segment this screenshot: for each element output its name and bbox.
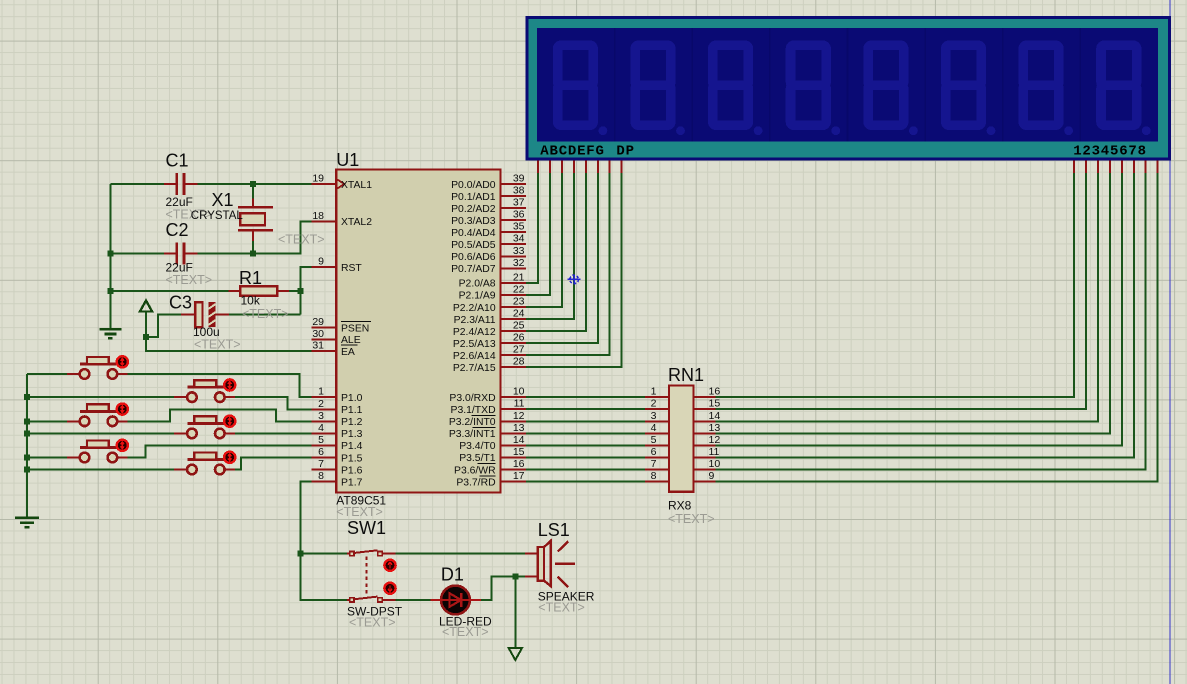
- wire rail to button R2: [27, 432, 174, 434]
- wire U1 P1.7 to SW1 top pole: [301, 482, 347, 554]
- svg-text:X1: X1: [212, 190, 234, 210]
- resistor network RN1 body: [669, 386, 693, 492]
- display digit pins: [1074, 161, 1158, 174]
- svg-text:25: 25: [513, 320, 525, 332]
- junction node rail/C2: [107, 251, 113, 257]
- svg-text:P3.4/T0: P3.4/T0: [459, 441, 496, 452]
- svg-text:P1.3: P1.3: [341, 429, 363, 440]
- U1 pin 32 (P0.7/AD7): [451, 257, 526, 275]
- svg-text:5: 5: [318, 434, 324, 446]
- wire button R1 to U1 P1.1: [233, 397, 312, 409]
- svg-text:29: 29: [312, 316, 324, 328]
- RN1 pin 8: [645, 470, 669, 482]
- U1 pin 23 (P2.2/A10): [453, 296, 526, 314]
- svg-text:2: 2: [651, 398, 657, 410]
- U1 pin 22 (P2.1/A9): [459, 283, 526, 301]
- power arrow terminal: [140, 301, 152, 312]
- svg-text:P3.2/INT0: P3.2/INT0: [449, 417, 496, 428]
- svg-text:11: 11: [514, 398, 525, 410]
- svg-text:17: 17: [513, 470, 525, 482]
- svg-text:12: 12: [709, 434, 721, 446]
- U1 pin 27 (P2.6/A14): [453, 344, 526, 362]
- wire U1 P3.3 to RN1 pin 4: [526, 432, 645, 434]
- display digit 1 ghost segments: [558, 45, 608, 135]
- svg-text:LS1: LS1: [538, 520, 570, 540]
- svg-text:P1.5: P1.5: [341, 453, 363, 464]
- svg-text:38: 38: [513, 185, 525, 197]
- svg-text:P3.7/RD: P3.7/RD: [456, 477, 495, 488]
- svg-text:P3.1/TXD: P3.1/TXD: [451, 405, 496, 416]
- svg-text:P2.3/A11: P2.3/A11: [454, 315, 496, 326]
- svg-text:C2: C2: [166, 220, 189, 240]
- svg-text:12: 12: [513, 410, 525, 422]
- wire XTAL1 node to crystal: [252, 184, 254, 199]
- speaker LS1: [525, 541, 575, 587]
- svg-text:15: 15: [513, 446, 525, 458]
- svg-text:P2.4/A12: P2.4/A12: [453, 327, 496, 338]
- display digit 5 ghost segments: [868, 45, 918, 135]
- LED D1: [431, 586, 481, 615]
- SW1 actuator marker down: [384, 583, 395, 594]
- capacitor C1: [164, 151, 197, 210]
- svg-text:ABCDEFG: ABCDEFG: [540, 143, 604, 159]
- U1 pin 34 (P0.5/AD5): [451, 233, 526, 251]
- wire display segment F to U1 P2.5: [526, 173, 598, 344]
- U1 pin 18 (XTAL2): [312, 210, 373, 228]
- wire SW1 node to lower pole: [301, 554, 347, 600]
- wire power node to U1 EA: [146, 337, 312, 351]
- wire display segment E to U1 P2.4: [526, 173, 586, 332]
- svg-text:<TEXT>: <TEXT>: [194, 338, 241, 352]
- svg-text:P0.1/AD1: P0.1/AD1: [451, 192, 496, 203]
- svg-text:P0.2/AD2: P0.2/AD2: [451, 204, 496, 215]
- svg-text:P3.5/T1: P3.5/T1: [459, 453, 496, 464]
- junction node rail/R1: [107, 288, 113, 294]
- U1 pin 1 (P1.0): [312, 386, 363, 404]
- svg-text:27: 27: [513, 344, 525, 356]
- wire rail to button R3: [27, 469, 174, 471]
- switch SW1 (SW-DPST): [347, 550, 395, 602]
- junction node rail/R3btn: [24, 467, 30, 473]
- wire RST node vertical to U1 RST: [301, 267, 312, 314]
- svg-text:C1: C1: [166, 151, 189, 171]
- button BTN-R2 actuator marker: [224, 416, 235, 427]
- svg-text:P1.0: P1.0: [341, 393, 363, 404]
- svg-text:10: 10: [709, 458, 721, 470]
- svg-text:39: 39: [513, 173, 525, 185]
- push button BTN-R1: [174, 380, 235, 402]
- svg-text:13: 13: [709, 422, 721, 434]
- display digit 8 ghost segments: [1101, 45, 1151, 135]
- svg-text:31: 31: [312, 340, 324, 352]
- wire LED cathode to speaker node: [481, 577, 515, 600]
- svg-text:14: 14: [513, 434, 525, 446]
- svg-text:P1.7: P1.7: [341, 477, 363, 488]
- RN1 pin 16: [693, 386, 720, 398]
- wire U1 P3.1 to RN1 pin 2: [526, 408, 645, 410]
- display digit 7 ghost segments: [1023, 45, 1073, 135]
- RN1 pin 6: [645, 446, 669, 458]
- svg-text:P1.4: P1.4: [341, 441, 363, 452]
- svg-text:DP: DP: [616, 143, 634, 159]
- svg-text:36: 36: [513, 209, 525, 221]
- svg-text:26: 26: [513, 332, 525, 344]
- U1 pin 6 (P1.5): [312, 446, 363, 464]
- svg-text:18: 18: [312, 210, 324, 222]
- wire display digit 6 to RN1 pin 11: [716, 173, 1134, 458]
- wire rail to button L1: [27, 373, 67, 375]
- U1 pin 33 (P0.6/AD6): [451, 245, 526, 263]
- display segment pins: [538, 161, 622, 174]
- wire rail to button L3: [27, 457, 67, 459]
- wire display digit 4 to RN1 pin 13: [716, 173, 1110, 434]
- display digit 3 ghost segments: [713, 45, 763, 135]
- U1 pin 8 (P1.7): [312, 470, 363, 488]
- svg-text:1: 1: [651, 386, 657, 398]
- U1 pin 28 (P2.7/A15): [453, 356, 526, 374]
- wire speaker node to LS1: [515, 576, 525, 578]
- U1 pin 26 (P2.5/A13): [453, 332, 526, 350]
- push button BTN-R3: [174, 453, 235, 475]
- svg-text:D1: D1: [441, 565, 464, 585]
- svg-text:<TEXT>: <TEXT>: [538, 601, 585, 615]
- RN1 pin 13: [693, 422, 720, 434]
- svg-text:<TEXT>: <TEXT>: [349, 616, 396, 630]
- svg-text:SW1: SW1: [347, 518, 386, 538]
- wire R1 right to RST node: [289, 290, 301, 292]
- svg-text:14: 14: [709, 410, 721, 422]
- wire display digit 5 to RN1 pin 12: [716, 173, 1122, 446]
- RN1 pin 11: [693, 446, 719, 458]
- wire display segment G to U1 P2.6: [526, 173, 610, 356]
- U1 pin 5 (P1.4): [312, 434, 363, 452]
- junction node XTAL2/crystal: [250, 251, 256, 257]
- wire rail to button R1: [27, 396, 174, 398]
- svg-text:24: 24: [513, 308, 525, 320]
- svg-text:23: 23: [513, 296, 525, 308]
- svg-text:P3.0/RXD: P3.0/RXD: [449, 393, 495, 404]
- wire C1 left to ground rail: [110, 183, 164, 185]
- wire crystal bottom drop: [252, 241, 254, 254]
- wire C1 right to U1 XTAL1: [197, 183, 311, 185]
- wire button ground rail: [26, 374, 28, 517]
- push button BTN-L2: [67, 404, 128, 426]
- svg-text:P0.5/AD5: P0.5/AD5: [451, 240, 496, 251]
- junction node rail/R2btn: [24, 430, 30, 436]
- svg-text:9: 9: [709, 470, 715, 482]
- svg-text:6: 6: [318, 446, 324, 458]
- display digit 6 ghost segments: [946, 45, 996, 135]
- wire U1 P3.2 to RN1 pin 3: [526, 420, 645, 422]
- sheet border (right edge): [1169, 0, 1171, 684]
- svg-text:11: 11: [709, 446, 720, 458]
- button BTN-L3 actuator marker: [117, 440, 128, 451]
- push button BTN-L3: [67, 441, 128, 463]
- U1 pin 15 (P3.5/T1): [459, 446, 526, 464]
- resistor R1: [229, 268, 289, 308]
- svg-text:P0.6/AD6: P0.6/AD6: [451, 252, 496, 263]
- svg-text:9: 9: [318, 256, 324, 268]
- svg-text:33: 33: [513, 245, 525, 257]
- wire rail to button L2: [27, 420, 67, 422]
- button BTN-R1 actuator marker: [224, 379, 235, 390]
- svg-text:<TEXT>: <TEXT>: [278, 233, 325, 247]
- U1 pin 13 (P3.3/INT1): [449, 422, 526, 440]
- wire U1 P3.4 to RN1 pin 5: [526, 444, 645, 446]
- svg-text:P0.4/AD4: P0.4/AD4: [451, 228, 496, 239]
- svg-text:21: 21: [513, 271, 525, 283]
- wire display segment C to U1 P2.2: [526, 173, 562, 308]
- U1 pin 24 (P2.3/A11): [454, 308, 526, 326]
- svg-text:<TEXT>: <TEXT>: [442, 625, 489, 639]
- svg-text:28: 28: [513, 356, 525, 368]
- RN1 pin 14: [693, 410, 720, 422]
- svg-text:32: 32: [513, 257, 525, 269]
- svg-text:P2.7/A15: P2.7/A15: [453, 363, 496, 374]
- wire U1 P3.5 to RN1 pin 6: [526, 456, 645, 458]
- svg-text:EA: EA: [341, 347, 355, 358]
- wire left ground rail: [109, 184, 111, 329]
- svg-text:4: 4: [651, 422, 657, 434]
- svg-text:P2.1/A9: P2.1/A9: [459, 291, 496, 302]
- RN1 pin 1: [645, 386, 669, 398]
- svg-text:10: 10: [513, 386, 525, 398]
- RN1 pin 10: [693, 458, 720, 470]
- U1 pin 31 (EA): [312, 340, 358, 358]
- wire U1 P3.7 to RN1 pin 8: [526, 481, 645, 483]
- RN1 pin 3: [645, 410, 669, 422]
- svg-text:XTAL2: XTAL2: [341, 217, 372, 228]
- junction node rail/L3: [24, 455, 30, 461]
- RN1 pin 2: [645, 398, 669, 410]
- wire speaker node to ground: [514, 577, 516, 649]
- U1 XTAL1 clock marker: [337, 180, 344, 189]
- svg-text:15: 15: [709, 398, 721, 410]
- svg-text:RX8: RX8: [668, 499, 692, 513]
- svg-text:30: 30: [312, 328, 324, 340]
- wire button L1 to U1 P1.0: [128, 374, 312, 397]
- U1 pin 21 (P2.0/A8): [459, 271, 526, 289]
- wire C3 left to power node: [146, 314, 181, 336]
- svg-text:RST: RST: [341, 263, 362, 274]
- U1 pin 35 (P0.4/AD4): [451, 221, 526, 239]
- U1 pin 12 (P3.2/INT0): [449, 410, 526, 428]
- wire button L3 to U1 P1.4: [128, 445, 312, 457]
- U1 pin 10 (P3.0/RXD): [449, 386, 526, 404]
- svg-text:19: 19: [312, 173, 324, 185]
- svg-text:22: 22: [513, 283, 525, 295]
- svg-text:C3: C3: [169, 293, 192, 313]
- wire display digit 2 to RN1 pin 15: [716, 173, 1087, 410]
- U1 pin 14 (P3.4/T0): [459, 434, 526, 452]
- button BTN-R3 actuator marker: [224, 452, 235, 463]
- display digit 2 ghost segments: [635, 45, 685, 135]
- svg-text:P0.7/AD7: P0.7/AD7: [451, 264, 496, 275]
- svg-text:3: 3: [651, 410, 657, 422]
- svg-text:P2.0/A8: P2.0/A8: [459, 279, 496, 290]
- svg-text:P1.2: P1.2: [341, 417, 363, 428]
- junction node rail/R1btn: [24, 394, 30, 400]
- RN1 pin 12: [693, 434, 720, 446]
- svg-text:R1: R1: [239, 268, 262, 288]
- U1 pin 30 (ALE): [312, 328, 361, 346]
- U1 pin 2 (P1.1): [312, 398, 363, 416]
- wire display digit 1 to RN1 pin 16: [716, 173, 1075, 398]
- wire button R3 to U1 P1.5: [233, 458, 312, 470]
- svg-text:P2.6/A14: P2.6/A14: [453, 351, 496, 362]
- U1 pin 9 (RST): [312, 256, 363, 274]
- wire U1 P3.0 to RN1 pin 1: [526, 396, 645, 398]
- wire SW1 top to speaker top: [395, 553, 525, 555]
- svg-text:12345678: 12345678: [1073, 143, 1147, 159]
- U1 pin 4 (P1.3): [312, 422, 363, 440]
- wire button R2 to U1 P1.3: [233, 432, 312, 434]
- svg-text:P2.2/A10: P2.2/A10: [453, 303, 496, 314]
- junction node SW1 feed: [298, 551, 304, 557]
- svg-text:1: 1: [318, 386, 324, 398]
- wire U1 P3.6 to RN1 pin 7: [526, 469, 645, 471]
- svg-text:P3.6/WR: P3.6/WR: [454, 465, 496, 476]
- button BTN-L1 actuator marker: [117, 356, 128, 367]
- capacitor C2: [164, 220, 197, 274]
- svg-text:16: 16: [709, 386, 721, 398]
- svg-text:16: 16: [513, 458, 525, 470]
- crystal X1: [191, 190, 273, 241]
- 7-segment display module body: [526, 16, 1172, 161]
- svg-text:PSEN: PSEN: [341, 323, 369, 334]
- U1 pin 38 (P0.1/AD1): [451, 185, 526, 203]
- U1 pin 37 (P0.2/AD2): [451, 197, 526, 215]
- wire display segment A to U1 P2.0: [526, 173, 538, 283]
- ground arrow (speaker): [509, 648, 522, 660]
- U1 pin 3 (P1.2): [312, 410, 363, 428]
- svg-text:<TEXT>: <TEXT>: [336, 505, 383, 519]
- wire power arrow drop: [145, 311, 147, 337]
- svg-text:3: 3: [318, 410, 324, 422]
- svg-text:P0.0/AD0: P0.0/AD0: [451, 180, 496, 191]
- junction node R1/RST: [298, 288, 304, 294]
- RN1 pin 9: [693, 470, 715, 482]
- junction node power/EA: [143, 334, 149, 340]
- svg-text:8: 8: [318, 470, 324, 482]
- svg-text:34: 34: [513, 233, 525, 245]
- RN1 pin 15: [693, 398, 720, 410]
- svg-text:<TEXT>: <TEXT>: [166, 273, 213, 287]
- svg-text:7: 7: [651, 458, 657, 470]
- ground (button rail): [15, 518, 39, 528]
- svg-text:35: 35: [513, 221, 525, 233]
- wire display digit 8 to RN1 pin 9: [716, 173, 1158, 482]
- RN1 pin 7: [645, 458, 669, 470]
- svg-text:CRYSTAL: CRYSTAL: [191, 210, 244, 222]
- wire R1 left to ground rail: [110, 290, 228, 292]
- U1 pin 17 (P3.7/RD): [456, 470, 526, 488]
- ground (left rail): [99, 329, 121, 338]
- svg-text:P1.1: P1.1: [341, 405, 363, 416]
- SW1 actuator marker up: [384, 560, 395, 571]
- wire SW1 bottom to LED anode: [395, 599, 430, 601]
- wire display segment B to U1 P2.1: [526, 173, 550, 295]
- svg-text:8: 8: [651, 470, 657, 482]
- U1 pin 11 (P3.1/TXD): [451, 398, 526, 416]
- svg-text:10k: 10k: [241, 294, 261, 308]
- U1 pin 25 (P2.4/A12): [453, 320, 526, 338]
- wire display segment D to U1 P2.3: [526, 173, 574, 320]
- svg-text:<TEXT>: <TEXT>: [668, 512, 715, 526]
- svg-text:P2.5/A13: P2.5/A13: [453, 339, 496, 350]
- svg-text:ALE: ALE: [341, 335, 361, 346]
- svg-text:U1: U1: [336, 150, 359, 170]
- svg-text:7: 7: [318, 458, 324, 470]
- wire button L2 to U1 P1.2: [128, 409, 312, 421]
- wire C2 right to U1 XTAL2: [197, 221, 311, 253]
- svg-text:P0.3/AD3: P0.3/AD3: [451, 216, 496, 227]
- microcontroller U1 body: [336, 170, 500, 493]
- wire C3 right to RST node: [229, 313, 300, 315]
- push button BTN-L1: [67, 357, 128, 379]
- display digit 4 ghost segments: [791, 45, 841, 135]
- RN1 pin 5: [645, 434, 669, 446]
- svg-text:4: 4: [318, 422, 324, 434]
- push button BTN-R2: [174, 416, 235, 438]
- svg-text:37: 37: [513, 197, 525, 209]
- U1 pin 16 (P3.6/WR): [454, 458, 526, 476]
- U1 pin 29 (PSEN): [312, 316, 372, 334]
- svg-text:XTAL1: XTAL1: [341, 180, 372, 191]
- wire C2 left to ground rail: [110, 253, 164, 255]
- svg-text:P3.3/INT1: P3.3/INT1: [449, 429, 496, 440]
- svg-text:P1.6: P1.6: [341, 465, 363, 476]
- button BTN-L2 actuator marker: [117, 404, 128, 415]
- svg-text:6: 6: [651, 446, 657, 458]
- svg-text:5: 5: [651, 434, 657, 446]
- wire display digit 7 to RN1 pin 10: [716, 173, 1146, 470]
- capacitor C3: [169, 293, 229, 340]
- wire display segment DP to U1 P2.7: [526, 173, 622, 368]
- svg-text:13: 13: [513, 422, 525, 434]
- junction node rail/L2: [24, 418, 30, 424]
- U1 pin 19 (XTAL1): [312, 173, 373, 191]
- svg-text:<TEXT>: <TEXT>: [242, 307, 289, 321]
- display segment pin labels ABCDEFG DP: [540, 143, 635, 159]
- junction node speaker/ground: [512, 574, 518, 580]
- wire display digit 3 to RN1 pin 14: [716, 173, 1098, 422]
- svg-text:RN1: RN1: [668, 365, 704, 385]
- U1 pin 39 (P0.0/AD0): [451, 173, 526, 191]
- origin marker: [568, 275, 581, 284]
- U1 pin 36 (P0.3/AD3): [451, 209, 526, 227]
- svg-text:2: 2: [318, 398, 324, 410]
- junction node XTAL1/C1: [250, 181, 256, 187]
- U1 pin 7 (P1.6): [312, 458, 363, 476]
- RN1 pin 4: [645, 422, 669, 434]
